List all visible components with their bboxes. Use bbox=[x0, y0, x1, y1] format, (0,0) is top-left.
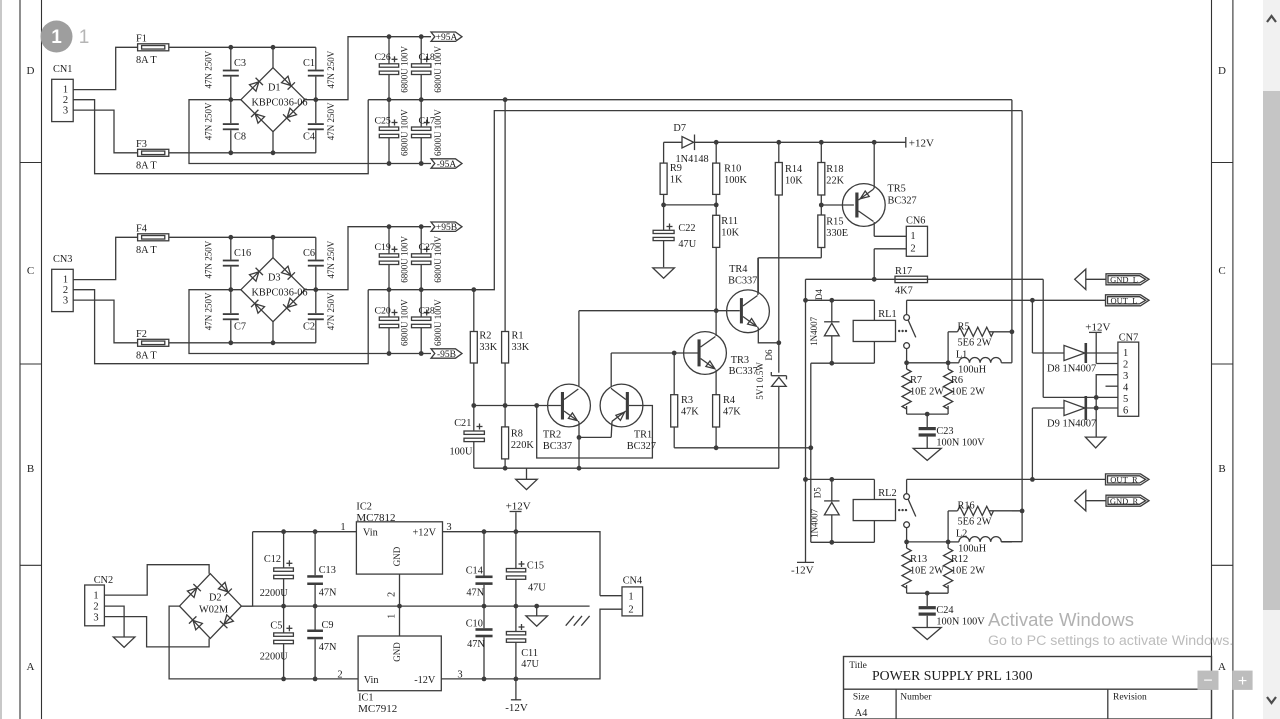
svg-text:5E6 2W: 5E6 2W bbox=[958, 338, 992, 349]
svg-text:BC337: BC337 bbox=[543, 441, 572, 452]
svg-text:2: 2 bbox=[910, 243, 915, 254]
svg-text:47U: 47U bbox=[521, 659, 539, 670]
svg-text:47N 250V: 47N 250V bbox=[204, 292, 214, 330]
svg-text:47N 250V: 47N 250V bbox=[204, 50, 214, 88]
svg-text:A: A bbox=[1218, 661, 1226, 673]
svg-text:3: 3 bbox=[63, 296, 68, 307]
svg-text:4K7: 4K7 bbox=[895, 286, 913, 297]
svg-text:33K: 33K bbox=[479, 342, 497, 353]
svg-text:C25: C25 bbox=[375, 116, 391, 127]
svg-text:R5: R5 bbox=[958, 322, 970, 333]
svg-text:R8: R8 bbox=[511, 429, 523, 440]
svg-text:10K: 10K bbox=[785, 176, 803, 187]
svg-text:C22: C22 bbox=[678, 223, 695, 234]
svg-text:D3: D3 bbox=[268, 273, 281, 284]
svg-text:R15: R15 bbox=[826, 217, 843, 228]
svg-text:R11: R11 bbox=[721, 216, 738, 227]
svg-text:KBPC036-06: KBPC036-06 bbox=[252, 98, 308, 109]
svg-text:RL2: RL2 bbox=[878, 488, 896, 499]
svg-text:D: D bbox=[1218, 65, 1226, 77]
svg-text:C20: C20 bbox=[375, 306, 391, 317]
svg-text:CN1: CN1 bbox=[53, 64, 72, 75]
svg-text:8A T: 8A T bbox=[136, 245, 157, 256]
svg-text:F4: F4 bbox=[136, 224, 147, 235]
svg-text:C8: C8 bbox=[234, 132, 246, 143]
svg-text:L2: L2 bbox=[956, 529, 967, 540]
svg-text:−: − bbox=[1203, 673, 1212, 690]
svg-text:R9: R9 bbox=[670, 163, 682, 174]
svg-text:47N 250V: 47N 250V bbox=[204, 240, 214, 278]
svg-text:C26: C26 bbox=[375, 52, 391, 63]
svg-text:3: 3 bbox=[93, 613, 98, 624]
svg-text:D7: D7 bbox=[673, 123, 686, 134]
svg-text:R10: R10 bbox=[724, 164, 741, 175]
svg-text:-95A: -95A bbox=[437, 160, 457, 170]
svg-text:3: 3 bbox=[1123, 371, 1128, 382]
svg-text:C23: C23 bbox=[936, 426, 953, 437]
svg-text:C21: C21 bbox=[454, 418, 471, 429]
svg-text:D2: D2 bbox=[209, 593, 222, 604]
svg-text:TR5: TR5 bbox=[888, 183, 906, 194]
svg-text:BC337: BC337 bbox=[728, 276, 757, 287]
svg-text:Vin: Vin bbox=[363, 528, 378, 539]
svg-text:22K: 22K bbox=[826, 176, 844, 187]
svg-text:GND_R: GND_R bbox=[1110, 496, 1139, 506]
svg-text:TR1: TR1 bbox=[634, 430, 652, 441]
svg-text:W02M: W02M bbox=[199, 605, 228, 616]
svg-text:B: B bbox=[1218, 463, 1225, 475]
svg-text:1: 1 bbox=[93, 591, 98, 602]
svg-text:POWER SUPPLY PRL 1300: POWER SUPPLY PRL 1300 bbox=[872, 668, 1033, 683]
svg-text:47U: 47U bbox=[678, 239, 696, 250]
svg-text:CN4: CN4 bbox=[623, 576, 642, 587]
svg-text:C6: C6 bbox=[303, 248, 315, 259]
svg-text:10E 2W: 10E 2W bbox=[910, 566, 944, 577]
svg-text:D9 1N4007: D9 1N4007 bbox=[1047, 419, 1096, 430]
svg-text:R16: R16 bbox=[958, 501, 975, 512]
svg-text:47K: 47K bbox=[681, 407, 699, 418]
svg-text:R18: R18 bbox=[826, 164, 843, 175]
svg-text:GND: GND bbox=[392, 546, 402, 566]
svg-text:C1: C1 bbox=[303, 58, 315, 69]
svg-text:47N 250V: 47N 250V bbox=[326, 50, 336, 88]
svg-text:C11: C11 bbox=[521, 648, 538, 659]
svg-text:10E 2W: 10E 2W bbox=[951, 387, 985, 398]
svg-text:1: 1 bbox=[51, 27, 62, 48]
svg-text:330E: 330E bbox=[826, 228, 848, 239]
svg-text:10E 2W: 10E 2W bbox=[910, 387, 944, 398]
svg-text:R6: R6 bbox=[951, 375, 963, 386]
svg-text:BC327: BC327 bbox=[627, 441, 656, 452]
svg-text:2: 2 bbox=[387, 592, 398, 597]
svg-text:TR4: TR4 bbox=[729, 264, 747, 275]
svg-text:33K: 33K bbox=[512, 342, 530, 353]
svg-text:C12: C12 bbox=[264, 554, 281, 565]
svg-text:C14: C14 bbox=[466, 566, 483, 577]
svg-text:CN7: CN7 bbox=[1119, 332, 1138, 343]
svg-text:KBPC036-06: KBPC036-06 bbox=[252, 288, 308, 299]
svg-text:B: B bbox=[27, 463, 34, 475]
svg-text:3: 3 bbox=[446, 522, 451, 533]
svg-text:C9: C9 bbox=[322, 620, 334, 631]
svg-text:6800U 100V: 6800U 100V bbox=[433, 299, 443, 346]
svg-text:Revision: Revision bbox=[1113, 693, 1147, 703]
svg-text:GND: GND bbox=[392, 642, 402, 662]
svg-text:6800U 100V: 6800U 100V bbox=[400, 236, 410, 283]
svg-text:IC1: IC1 bbox=[358, 693, 373, 704]
svg-text:BC337: BC337 bbox=[729, 366, 758, 377]
svg-text:R4: R4 bbox=[723, 395, 735, 406]
svg-text:2200U: 2200U bbox=[260, 652, 289, 663]
svg-text:OUT_R: OUT_R bbox=[1110, 475, 1138, 485]
svg-text:100uH: 100uH bbox=[958, 544, 987, 555]
svg-text:CN6: CN6 bbox=[906, 216, 925, 227]
svg-text:100K: 100K bbox=[724, 175, 747, 186]
svg-text:100N 100V: 100N 100V bbox=[936, 438, 985, 449]
svg-text:-95B: -95B bbox=[437, 350, 456, 360]
svg-text:1K: 1K bbox=[670, 175, 683, 186]
svg-text:6800U 100V: 6800U 100V bbox=[400, 299, 410, 346]
svg-text:1: 1 bbox=[628, 592, 633, 603]
svg-text:R2: R2 bbox=[479, 331, 491, 342]
svg-text:Number: Number bbox=[900, 693, 932, 703]
svg-text:1N4007: 1N4007 bbox=[809, 508, 819, 537]
svg-text:3: 3 bbox=[63, 106, 68, 117]
svg-text:C24: C24 bbox=[936, 605, 953, 616]
svg-text:C13: C13 bbox=[319, 565, 336, 576]
svg-text:6800U 100V: 6800U 100V bbox=[433, 109, 443, 156]
svg-text:F2: F2 bbox=[136, 329, 147, 340]
svg-text:1: 1 bbox=[63, 85, 68, 96]
svg-text:MC7812: MC7812 bbox=[356, 512, 395, 524]
svg-text:10E 2W: 10E 2W bbox=[951, 566, 985, 577]
svg-text:D8 1N4007: D8 1N4007 bbox=[1047, 364, 1096, 375]
svg-text:8A T: 8A T bbox=[136, 351, 157, 362]
svg-text:CN3: CN3 bbox=[53, 254, 72, 265]
svg-text:GND_L: GND_L bbox=[1110, 275, 1138, 285]
svg-text:4: 4 bbox=[1123, 383, 1129, 394]
svg-text:L1: L1 bbox=[956, 349, 967, 360]
svg-text:6: 6 bbox=[1123, 406, 1128, 417]
svg-text:47N: 47N bbox=[319, 642, 337, 653]
svg-text:F3: F3 bbox=[136, 139, 147, 150]
svg-text:Go to PC settings to activate: Go to PC settings to activate Windows. bbox=[988, 633, 1233, 649]
svg-text:C: C bbox=[27, 265, 34, 277]
svg-text:1: 1 bbox=[1123, 348, 1128, 359]
svg-text:C7: C7 bbox=[234, 322, 246, 333]
svg-text:R17: R17 bbox=[895, 266, 912, 277]
svg-text:1: 1 bbox=[63, 275, 68, 286]
svg-text:47N 250V: 47N 250V bbox=[204, 102, 214, 140]
svg-text:1: 1 bbox=[79, 27, 90, 48]
svg-text:D1: D1 bbox=[268, 83, 281, 94]
svg-text:2: 2 bbox=[1123, 360, 1128, 371]
svg-text:10K: 10K bbox=[721, 228, 739, 239]
svg-text:5E6 2W: 5E6 2W bbox=[958, 517, 992, 528]
svg-text:6800U 100V: 6800U 100V bbox=[433, 46, 443, 93]
svg-text:F1: F1 bbox=[136, 34, 147, 45]
svg-text:2: 2 bbox=[628, 605, 633, 616]
svg-text:47K: 47K bbox=[723, 407, 741, 418]
svg-text:C15: C15 bbox=[527, 561, 544, 572]
svg-text:1N4007: 1N4007 bbox=[809, 316, 819, 345]
svg-text:8A T: 8A T bbox=[136, 161, 157, 172]
svg-text:1: 1 bbox=[910, 231, 915, 242]
svg-text:A4: A4 bbox=[855, 708, 869, 719]
svg-text:47N 250V: 47N 250V bbox=[326, 292, 336, 330]
svg-text:C19: C19 bbox=[375, 242, 391, 253]
svg-text:47U: 47U bbox=[528, 583, 546, 594]
svg-text:R1: R1 bbox=[512, 331, 524, 342]
svg-text:2: 2 bbox=[63, 95, 68, 106]
svg-text:3: 3 bbox=[457, 670, 462, 681]
svg-text:C: C bbox=[1218, 265, 1225, 277]
svg-text:47N 250V: 47N 250V bbox=[326, 102, 336, 140]
svg-text:R12: R12 bbox=[951, 554, 968, 565]
svg-text:220K: 220K bbox=[511, 440, 534, 451]
svg-text:+12V: +12V bbox=[909, 138, 934, 150]
svg-text:D4: D4 bbox=[814, 289, 824, 300]
svg-text:2200U: 2200U bbox=[260, 588, 289, 599]
svg-text:+95B: +95B bbox=[436, 223, 457, 233]
svg-text:C3: C3 bbox=[234, 58, 246, 69]
svg-text:IC2: IC2 bbox=[356, 502, 371, 513]
svg-text:5: 5 bbox=[1123, 394, 1128, 405]
svg-text:C16: C16 bbox=[234, 248, 251, 259]
svg-text:6800U 100V: 6800U 100V bbox=[400, 46, 410, 93]
svg-text:+12V: +12V bbox=[506, 501, 531, 513]
svg-text:100uH: 100uH bbox=[958, 364, 987, 375]
svg-text:47N 250V: 47N 250V bbox=[326, 240, 336, 278]
svg-text:C5: C5 bbox=[270, 621, 282, 632]
svg-text:BC327: BC327 bbox=[888, 196, 917, 207]
svg-text:R13: R13 bbox=[910, 554, 927, 565]
svg-text:D5: D5 bbox=[813, 487, 823, 498]
svg-text:47N: 47N bbox=[466, 588, 484, 599]
svg-text:+12V: +12V bbox=[1085, 322, 1110, 334]
svg-text:100N 100V: 100N 100V bbox=[936, 617, 985, 628]
svg-text:Title: Title bbox=[849, 661, 867, 671]
svg-text:Vin: Vin bbox=[364, 675, 379, 686]
svg-text:Activate Windows: Activate Windows bbox=[988, 609, 1134, 630]
svg-text:TR3: TR3 bbox=[731, 355, 749, 366]
svg-text:1: 1 bbox=[387, 614, 398, 619]
svg-text:+12V: +12V bbox=[413, 528, 437, 539]
svg-text:R3: R3 bbox=[681, 395, 693, 406]
svg-text:D: D bbox=[27, 65, 35, 77]
svg-text:Size: Size bbox=[853, 693, 869, 703]
svg-text:+95A: +95A bbox=[436, 33, 458, 43]
svg-text:RL1: RL1 bbox=[878, 309, 896, 320]
svg-text:-12V: -12V bbox=[505, 702, 528, 714]
svg-text:6800U 100V: 6800U 100V bbox=[400, 109, 410, 156]
svg-text:-12V: -12V bbox=[414, 675, 436, 686]
svg-text:TR2: TR2 bbox=[543, 430, 561, 441]
svg-text:+: + bbox=[1238, 673, 1247, 690]
svg-text:2: 2 bbox=[93, 602, 98, 613]
svg-text:C10: C10 bbox=[466, 619, 483, 630]
svg-text:R14: R14 bbox=[785, 164, 802, 175]
svg-text:1: 1 bbox=[340, 522, 345, 533]
svg-text:100U: 100U bbox=[450, 447, 473, 458]
svg-text:C4: C4 bbox=[303, 132, 315, 143]
svg-text:OUT_L: OUT_L bbox=[1111, 296, 1138, 306]
svg-text:R7: R7 bbox=[910, 375, 922, 386]
svg-text:6800U 100V: 6800U 100V bbox=[433, 236, 443, 283]
svg-text:MC7912: MC7912 bbox=[358, 703, 397, 715]
svg-text:-12V: -12V bbox=[791, 565, 814, 577]
svg-text:2: 2 bbox=[337, 670, 342, 681]
svg-text:D6: D6 bbox=[764, 349, 774, 360]
svg-text:8A T: 8A T bbox=[136, 55, 157, 66]
svg-text:47N: 47N bbox=[319, 588, 337, 599]
svg-text:CN2: CN2 bbox=[94, 575, 113, 586]
svg-text:2: 2 bbox=[63, 285, 68, 296]
svg-text:C2: C2 bbox=[303, 322, 315, 333]
svg-text:A: A bbox=[27, 661, 35, 673]
svg-text:47N: 47N bbox=[467, 639, 485, 650]
